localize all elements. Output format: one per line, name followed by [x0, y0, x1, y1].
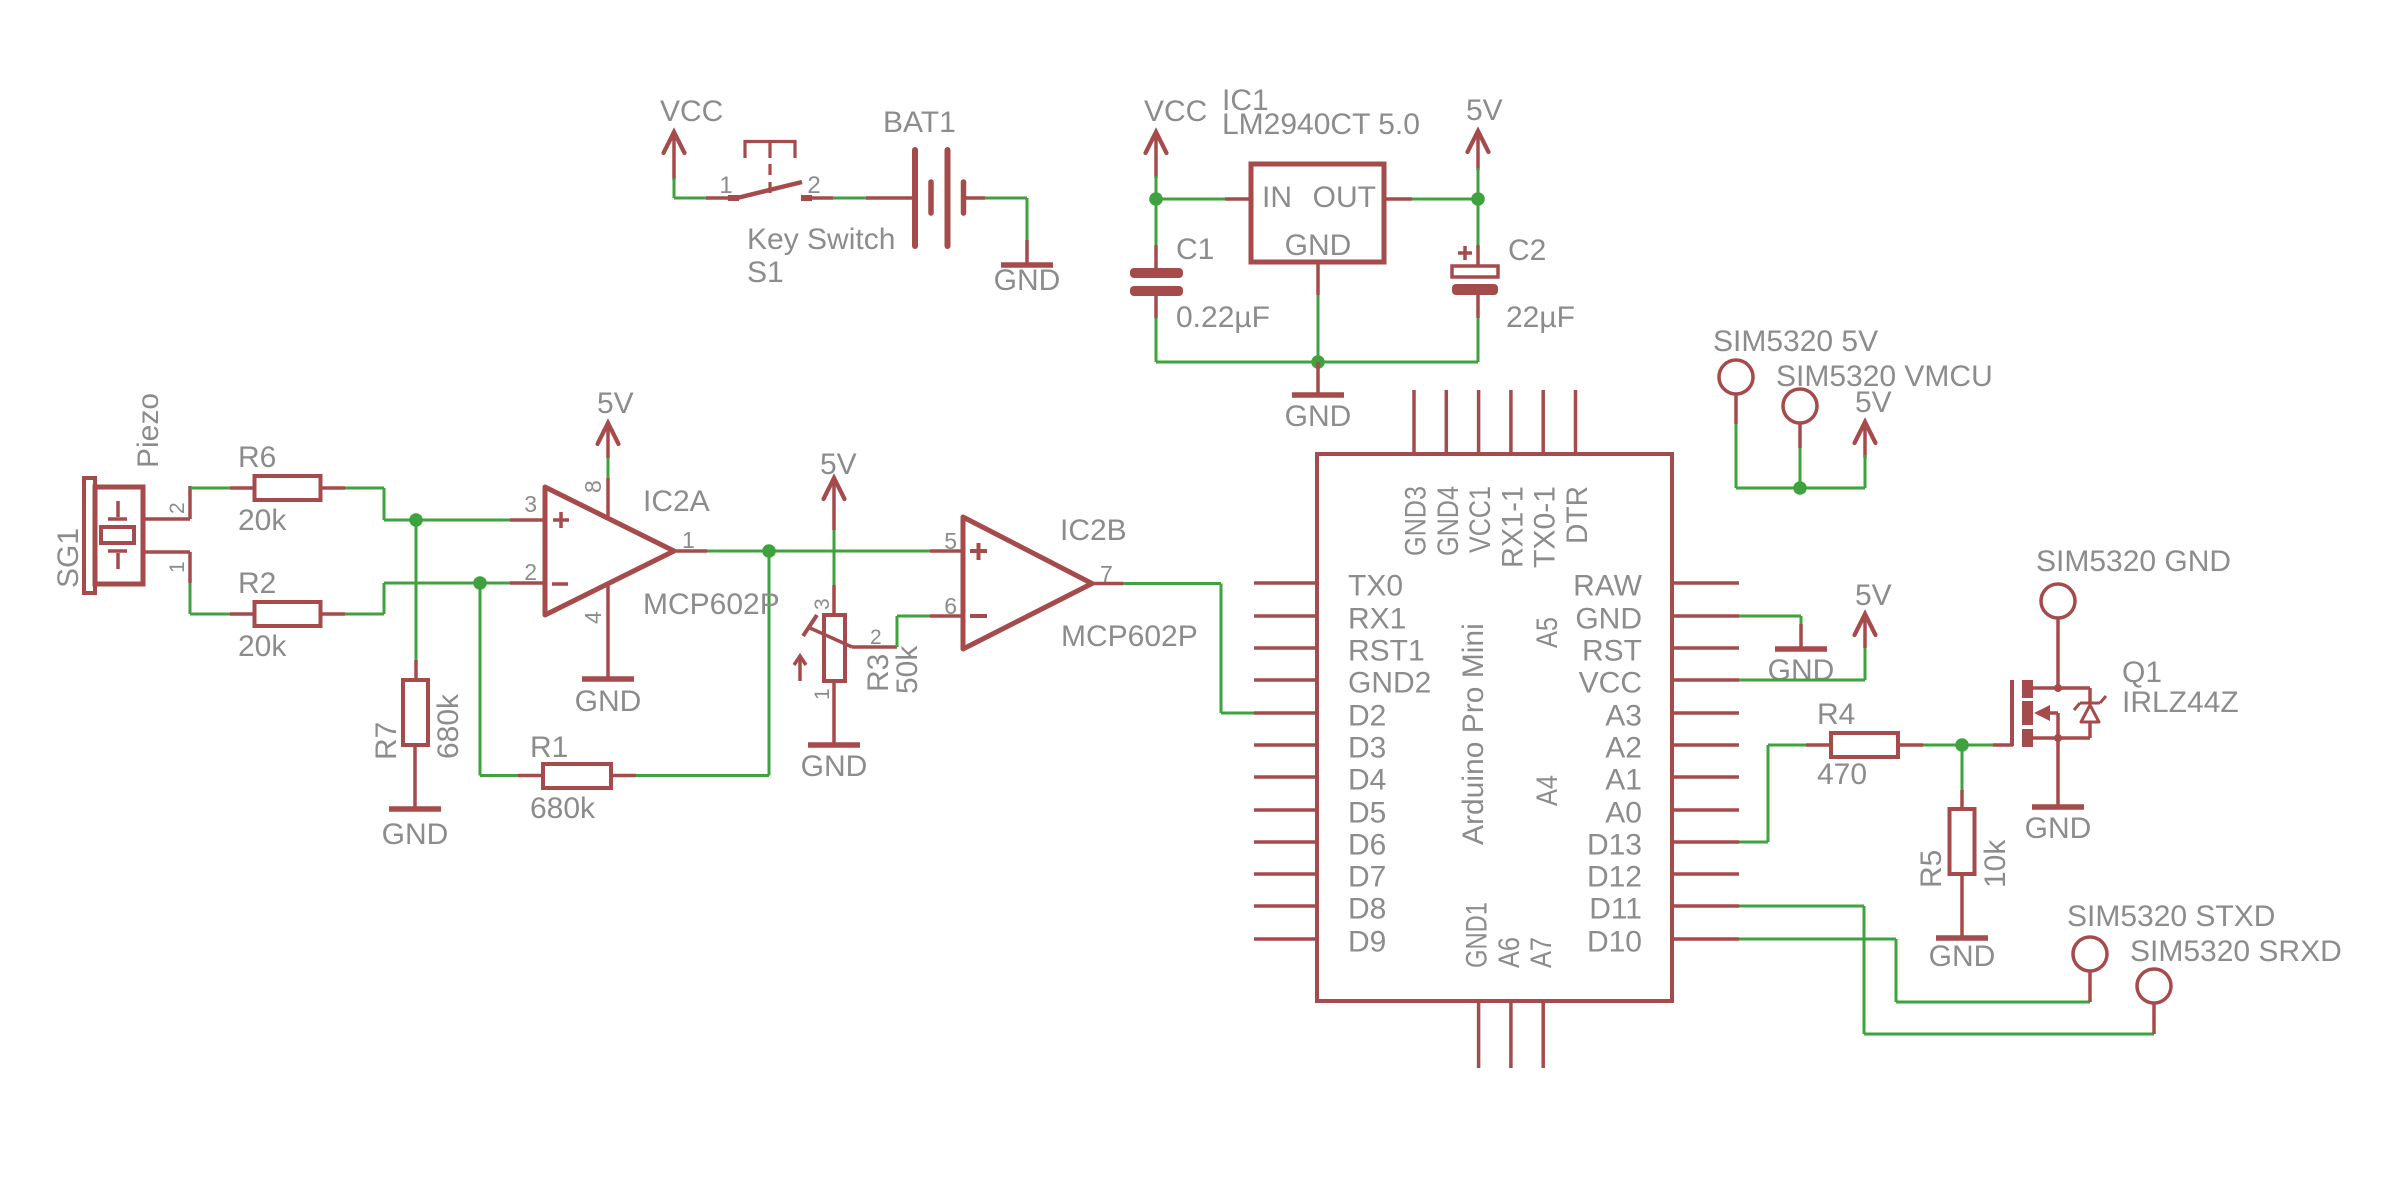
svg-text:680k: 680k	[530, 792, 596, 825]
svg-text:SG1: SG1	[52, 528, 85, 588]
svg-text:GND: GND	[382, 818, 449, 851]
svg-text:2: 2	[524, 559, 537, 585]
svg-text:VCC: VCC	[1144, 95, 1207, 128]
svg-text:D11: D11	[1589, 893, 1642, 926]
svg-text:C1: C1	[1176, 233, 1214, 266]
svg-text:GND: GND	[575, 685, 642, 718]
svg-text:470: 470	[1817, 758, 1867, 791]
svg-text:8: 8	[580, 480, 606, 493]
svg-text:S1: S1	[747, 256, 784, 289]
svg-text:GND: GND	[1285, 400, 1352, 433]
svg-text:1: 1	[166, 561, 189, 573]
svg-text:2: 2	[870, 626, 882, 649]
svg-text:Piezo: Piezo	[132, 393, 165, 468]
svg-text:TX0: TX0	[1348, 570, 1403, 603]
svg-text:LM2940CT 5.0: LM2940CT 5.0	[1222, 108, 1420, 141]
svg-text:RX1-1: RX1-1	[1496, 486, 1529, 568]
svg-text:GND: GND	[1285, 229, 1352, 262]
svg-text:GND: GND	[2025, 812, 2092, 845]
svg-text:GND3: GND3	[1400, 486, 1433, 556]
svg-text:R4: R4	[1817, 698, 1855, 731]
svg-text:GND: GND	[1575, 603, 1642, 636]
svg-text:GND: GND	[801, 750, 868, 783]
svg-text:680k: 680k	[432, 693, 465, 759]
svg-text:OUT: OUT	[1313, 181, 1376, 214]
svg-text:RAW: RAW	[1573, 570, 1643, 603]
svg-text:D6: D6	[1348, 829, 1386, 862]
svg-text:GND1: GND1	[1461, 902, 1494, 968]
svg-text:R6: R6	[238, 441, 276, 474]
svg-text:20k: 20k	[238, 504, 287, 537]
svg-text:1: 1	[811, 688, 834, 700]
svg-text:A4: A4	[1531, 775, 1564, 806]
svg-text:2: 2	[807, 172, 820, 199]
svg-text:A2: A2	[1605, 732, 1642, 765]
svg-text:A3: A3	[1605, 700, 1642, 733]
svg-text:A0: A0	[1605, 797, 1642, 830]
svg-text:20k: 20k	[238, 630, 287, 663]
svg-text:D9: D9	[1348, 926, 1386, 959]
svg-text:VCC: VCC	[660, 95, 723, 128]
svg-text:50k: 50k	[891, 645, 924, 694]
svg-text:DTR: DTR	[1561, 486, 1594, 544]
svg-text:22µF: 22µF	[1506, 301, 1575, 334]
svg-text:5V: 5V	[1855, 386, 1892, 419]
svg-text:IC2A: IC2A	[643, 485, 710, 518]
svg-text:5: 5	[944, 528, 957, 554]
svg-text:0.22µF: 0.22µF	[1176, 301, 1270, 334]
svg-text:MCP602P: MCP602P	[643, 588, 780, 621]
svg-text:D5: D5	[1348, 797, 1386, 830]
svg-text:TX0-1: TX0-1	[1529, 486, 1562, 568]
svg-text:D8: D8	[1348, 893, 1386, 926]
svg-text:GND: GND	[994, 264, 1061, 297]
svg-text:SIM5320 STXD: SIM5320 STXD	[2067, 900, 2275, 933]
svg-text:5V: 5V	[820, 448, 857, 481]
svg-text:IC2B: IC2B	[1060, 514, 1127, 547]
svg-text:2: 2	[166, 502, 189, 514]
svg-text:1: 1	[719, 172, 732, 199]
svg-text:3: 3	[524, 491, 537, 517]
svg-text:Q1: Q1	[2122, 656, 2162, 689]
svg-text:SIM5320 GND: SIM5320 GND	[2036, 545, 2231, 578]
svg-text:D3: D3	[1348, 732, 1386, 765]
svg-text:R5: R5	[1915, 850, 1948, 888]
svg-text:R1: R1	[530, 731, 568, 764]
svg-text:RX1: RX1	[1348, 603, 1406, 636]
svg-text:A1: A1	[1605, 764, 1642, 797]
svg-text:D4: D4	[1348, 764, 1386, 797]
svg-text:RST1: RST1	[1348, 635, 1425, 668]
svg-text:R7: R7	[370, 722, 403, 760]
svg-text:6: 6	[944, 593, 957, 619]
svg-text:D10: D10	[1587, 926, 1642, 959]
svg-text:SIM5320 SRXD: SIM5320 SRXD	[2130, 935, 2342, 968]
svg-text:Arduino Pro Mini: Arduino Pro Mini	[1457, 623, 1490, 845]
svg-text:D2: D2	[1348, 700, 1386, 733]
svg-text:R2: R2	[238, 567, 276, 600]
svg-text:1: 1	[682, 527, 695, 553]
svg-text:BAT1: BAT1	[883, 106, 956, 139]
svg-text:VCC1: VCC1	[1464, 486, 1497, 553]
svg-text:10k: 10k	[1979, 839, 2012, 888]
svg-text:A5: A5	[1531, 617, 1564, 648]
svg-text:SIM5320 5V: SIM5320 5V	[1713, 325, 1878, 358]
svg-text:5V: 5V	[1466, 94, 1503, 127]
svg-text:5V: 5V	[597, 387, 634, 420]
svg-text:Key Switch: Key Switch	[747, 223, 895, 256]
svg-text:C2: C2	[1508, 234, 1546, 267]
svg-text:D7: D7	[1348, 861, 1386, 894]
svg-text:GND2: GND2	[1348, 667, 1431, 700]
svg-text:RST: RST	[1582, 635, 1642, 668]
svg-text:5V: 5V	[1855, 579, 1892, 612]
svg-text:A6: A6	[1493, 937, 1526, 968]
svg-text:GND: GND	[1929, 940, 1996, 973]
svg-text:D13: D13	[1587, 829, 1642, 862]
svg-text:GND: GND	[1768, 654, 1835, 687]
svg-text:A7: A7	[1525, 937, 1558, 968]
svg-text:4: 4	[580, 611, 606, 624]
svg-text:D12: D12	[1587, 861, 1642, 894]
svg-text:IRLZ44Z: IRLZ44Z	[2122, 686, 2239, 719]
svg-text:GND4: GND4	[1432, 486, 1465, 556]
svg-text:3: 3	[811, 598, 834, 610]
svg-text:MCP602P: MCP602P	[1061, 620, 1198, 653]
svg-text:VCC: VCC	[1579, 667, 1642, 700]
svg-text:IN: IN	[1262, 181, 1292, 214]
